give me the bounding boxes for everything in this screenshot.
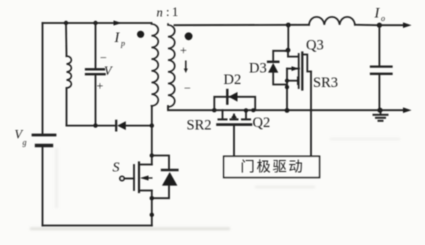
- node: output bottom: [377, 108, 382, 113]
- wire+arrow: output top: [379, 24, 403, 26]
- node: cap joins clamp wire: [93, 123, 97, 127]
- svg-text:D2: D2: [224, 72, 242, 88]
- diode D1 (clamp, pointing left): [115, 121, 117, 131]
- svg-text:Q2: Q2: [253, 115, 271, 131]
- current arrow Ip on top rail: [114, 21, 123, 26]
- wire: freewheel branch vertical: [287, 25, 289, 50]
- svg-text:o: o: [381, 14, 385, 23]
- wire: right gate-drive lead (crosses middle rail): [310, 72, 312, 157]
- gate lead and terminal of S: [124, 178, 134, 180]
- node: SR2 left: [212, 108, 216, 112]
- node: top rail / clamp cap branch: [93, 21, 97, 25]
- capacitor C clamp: [86, 68, 104, 70]
- transformer secondary winding: [168, 24, 175, 108]
- svg-text::1: :1: [166, 5, 181, 19]
- MOSFET SR3 source foot: [287, 80, 298, 82]
- svg-text:SR3: SR3: [313, 75, 338, 91]
- MOSFET S: [138, 163, 140, 193]
- MOSFET SR3 body arrow: [286, 69, 288, 81]
- diode D2 (pointing left): [226, 90, 228, 104]
- wire: secondary top rail: [175, 24, 310, 26]
- node: clamp meets primary/drain line: [150, 123, 154, 127]
- battery Vg: [33, 134, 55, 137]
- output inductor: [309, 17, 355, 25]
- node: output top: [377, 23, 382, 28]
- wire: primary bottom to drain line: [151, 106, 153, 126]
- MOSFET Q3 / SR3 bars: [298, 54, 300, 88]
- MOSFET SR2/Q2 (horizontal): [222, 110, 224, 118]
- ground: [380, 110, 382, 114]
- secondary polarity dot: [185, 32, 193, 40]
- MOSFET Q3 drain stub to gate-drive line: [302, 55, 311, 72]
- svg-text:−: −: [184, 81, 191, 95]
- label Vs arrow (secondary): [184, 61, 188, 74]
- node: Q2 right lead: [244, 108, 248, 112]
- svg-text:SR2: SR2: [187, 118, 212, 134]
- gate drive box: [224, 156, 320, 177]
- svg-text:门极驱动: 门极驱动: [241, 160, 305, 176]
- svg-text:D3: D3: [249, 61, 267, 77]
- wire: top-left rail: [43, 22, 152, 24]
- wire: drain line down to MOSFET S: [151, 126, 153, 165]
- output capacitor: [378, 25, 380, 66]
- wire: left vertical (input): [42, 23, 44, 134]
- primary polarity dot: [137, 31, 144, 38]
- svg-text:p: p: [120, 39, 125, 48]
- arrow: middle rail output: [403, 107, 412, 113]
- svg-text:S: S: [113, 161, 120, 176]
- wire: left vertical below battery: [42, 146, 44, 226]
- wire: clamp horizontal: [67, 125, 115, 127]
- node: SR3 source: [285, 79, 289, 83]
- node: top rail / magnetizing branch: [64, 21, 68, 25]
- node: freewheel to middle rail: [285, 108, 290, 113]
- node: body diode bottom: [150, 196, 154, 200]
- svg-text:g: g: [23, 138, 27, 147]
- MOSFET Q3 gate feed: [288, 50, 298, 56]
- gate bar of SR2/Q2: [218, 123, 252, 126]
- node: junction of D3 jog: [285, 85, 289, 89]
- wire: D3/SR3 common down to middle rail: [286, 81, 288, 111]
- inductor Lm (magnetizing): [65, 23, 68, 56]
- wire: inductor to output node: [355, 24, 380, 26]
- svg-text:+: +: [180, 43, 187, 57]
- node: source to bottom rail: [150, 213, 154, 217]
- body diode of S: [152, 156, 169, 170]
- node: freewheel branch on top rail: [286, 23, 291, 28]
- gate lead of SR2/Q2 to drive box: [233, 126, 235, 157]
- svg-text:+: +: [97, 79, 104, 93]
- diode D2 loop: [214, 97, 255, 110]
- wire: secondary bottom to SR2: [168, 106, 214, 110]
- svg-text:Q3: Q3: [306, 38, 324, 54]
- wire: middle rail: [214, 109, 404, 111]
- transformer primary winding: [152, 23, 159, 107]
- node: D3 / Q3 branch: [286, 48, 291, 53]
- diode D3 (pointing up): [268, 61, 278, 63]
- wire: bottom rail: [43, 225, 152, 227]
- diode D3 branch wires: [286, 50, 289, 52]
- node: D2 right return: [251, 108, 255, 112]
- svg-text:−: −: [100, 51, 107, 65]
- svg-text:n: n: [157, 6, 163, 20]
- node: body diode top: [150, 153, 154, 157]
- wire: clamp branch to cap: [95, 23, 97, 68]
